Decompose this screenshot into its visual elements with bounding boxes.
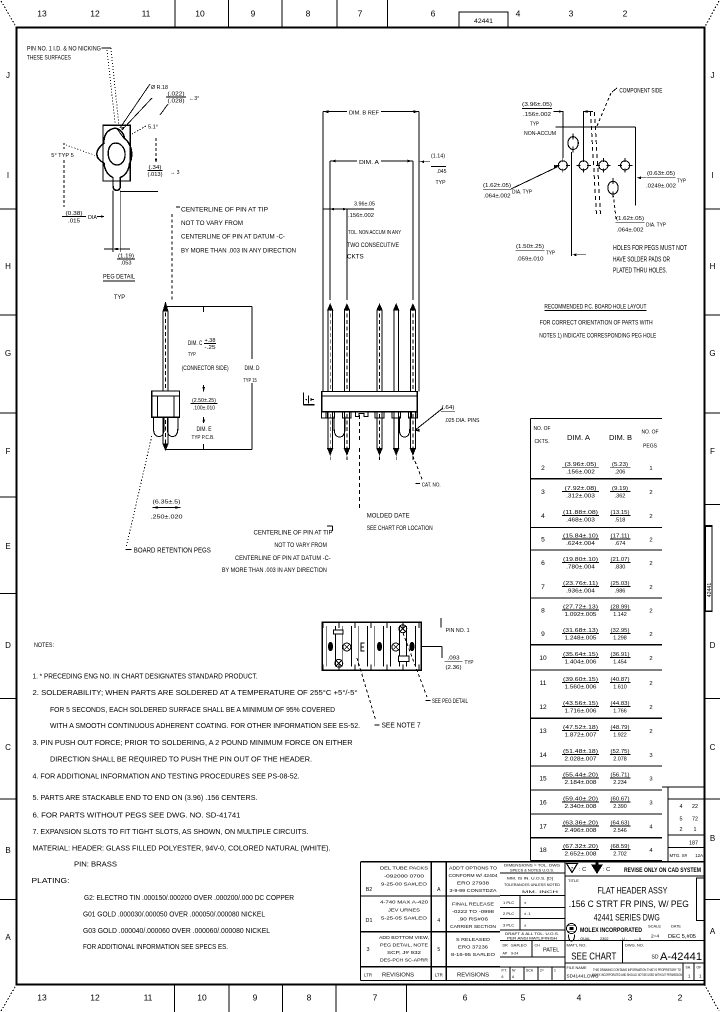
svg-text:2.078: 2.078 [613,757,627,763]
svg-text:SEE CHART: SEE CHART [571,952,616,963]
svg-text:4: 4 [541,513,545,520]
svg-text:2: 2 [678,993,683,1003]
svg-text:FOR CORRECT ORIENTATION OF PAR: FOR CORRECT ORIENTATION OF PARTS WITH [540,321,653,327]
svg-text:DIM. C: DIM. C [188,341,203,347]
svg-text:S RELEASED: S RELEASED [456,937,491,942]
svg-text:(.34): (.34) [149,165,162,171]
svg-text:(.64): (.64) [442,405,455,411]
svg-text:.059±.010: .059±.010 [517,256,544,262]
svg-text:-092000 0700: -092000 0700 [384,873,425,878]
svg-text:4: 4 [437,918,440,924]
scale and date cells [648,925,696,940]
front view pins upper [328,304,416,391]
svg-text:A-42441: A-42441 [660,951,702,963]
svg-text:MAT'L NO.: MAT'L NO. [567,944,587,948]
svg-text:6. FOR PARTS WITHOUT PEGS SEE: 6. FOR PARTS WITHOUT PEGS SEE DWG. NO. S… [33,811,241,820]
svg-text:3. PIN PUSH OUT FORCE; PRIOR T: 3. PIN PUSH OUT FORCE; PRIOR TO SOLDERIN… [33,738,353,747]
svg-text:SPECS & NOTES U.O.S.: SPECS & NOTES U.O.S. [510,869,554,873]
svg-text:OF: OF [697,966,702,970]
title block main frame [565,862,705,981]
svg-text:DIA: DIA [88,215,98,221]
peg detail dim 5.1 deg [132,125,158,135]
svg-text:: C: : C [579,867,586,873]
svg-text:5.1°: 5.1° [148,125,158,131]
svg-text:TYP: TYP [677,179,686,185]
svg-text:(1.50±.25): (1.50±.25) [516,244,544,250]
chart table frame [530,418,662,860]
svg-text:1.248±.005: 1.248±.005 [565,636,597,642]
chart row 13 ckts [539,725,652,739]
peg quantity mini table [662,787,704,862]
svg-text:(5.23): (5.23) [612,462,628,468]
single pin side view: pin lower end [163,417,168,449]
svg-text:BY MORE THAN .003 IN ANY DIREC: BY MORE THAN .003 IN ANY DIRECTION [222,568,327,574]
front view dim B REF [323,107,419,392]
svg-text:2 PLC: 2 PLC [503,911,514,916]
revise only on cad system bar [567,863,702,874]
svg-text:.015: .015 [68,218,80,224]
svg-text:.206: .206 [615,470,626,476]
svg-text:(17.11): (17.11) [611,533,630,539]
svg-text:2: 2 [649,585,652,591]
svg-text:.156±.002: .156±.002 [348,213,374,219]
svg-text:PIN NO. 1 I.D. & NO NICKING: PIN NO. 1 I.D. & NO NICKING [27,46,101,52]
svg-text:(40.87): (40.87) [611,677,630,683]
board retention pegs label with leader [126,436,212,554]
svg-text:(64.63): (64.63) [611,820,630,826]
dim E typ pcb label [192,427,215,441]
svg-text:NOT TO VARY FROM: NOT TO VARY FROM [274,543,327,549]
svg-text:.156 C STRT FR PINS, W/ PEG: .156 C STRT FR PINS, W/ PEG [569,899,689,909]
svg-text:(0.63±.05): (0.63±.05) [647,171,675,177]
svg-text:2.652±.008: 2.652±.008 [565,852,597,858]
svg-text:9: 9 [251,9,256,19]
svg-text:1.716±.006: 1.716±.006 [565,709,597,715]
svg-text:DIMENSIONS = TOL. DWG: DIMENSIONS = TOL. DWG [504,864,560,868]
chart row 14 ckts [539,749,652,763]
see note 7 label with dashed leader [357,658,421,730]
svg-text:42441: 42441 [474,18,493,25]
peg detail rectangle [103,125,130,181]
bottom ruler band [37,985,682,1012]
svg-text:-.25: -.25 [205,345,216,351]
svg-text:RECOMMENDED P.C. BOARD HOLE LA: RECOMMENDED P.C. BOARD HOLE LAYOUT [544,304,646,310]
svg-text:DR: DR [503,944,509,948]
svg-text:→ 3: → 3 [170,170,180,176]
svg-text:.053: .053 [121,261,132,267]
revision row D1 [366,899,496,929]
chart row 10 ckts [539,652,652,666]
svg-text:(.022): (.022) [168,91,185,97]
svg-text:11: 11 [144,993,153,1003]
svg-text:.156±.002: .156±.002 [523,112,551,118]
svg-text:DIM. B REF: DIM. B REF [349,111,379,117]
svg-text:DIM. E: DIM. E [197,427,212,433]
svg-text:C: C [5,743,11,752]
svg-text:←3°: ←3° [189,96,199,102]
svg-text:J: J [6,71,10,80]
svg-text:PEG DETAIL: PEG DETAIL [103,273,135,280]
svg-text:G2: ELECTRO TIN .000150/.00020: G2: ELECTRO TIN .000150/.000200 OVER .00… [84,893,294,902]
svg-text:.045: .045 [437,169,447,175]
svg-text:D: D [710,641,716,650]
svg-text:— A: — A [634,937,642,941]
svg-text:7: 7 [358,9,363,19]
svg-text:PATEL: PATEL [543,948,559,954]
svg-text:(35.64±.15): (35.64±.15) [563,652,598,658]
svg-text:2.184±.008: 2.184±.008 [565,780,597,786]
svg-text:8-16-95 SA#LEO: 8-16-95 SA#LEO [451,952,496,957]
svg-text:.674: .674 [615,541,626,547]
svg-text:(31.68±.13): (31.68±.13) [563,628,598,634]
svg-text:2: 2 [649,705,652,711]
revision row 3 [367,935,496,963]
svg-text:DIA. TYP: DIA. TYP [512,190,532,196]
svg-text:2: 2 [649,490,652,496]
svg-text:2: 2 [541,465,545,472]
revision footer strip [364,973,490,979]
svg-text:.624±.004: .624±.004 [566,541,595,547]
svg-text:MATERIAL: HEADER: GLASS FILLED: MATERIAL: HEADER: GLASS FILLED POLYESTER… [33,844,331,853]
svg-text:F: F [6,447,11,456]
svg-text:5: 5 [680,817,683,823]
svg-text:ERO 37236: ERO 37236 [458,944,489,949]
svg-text:CAT. NO.: CAT. NO. [422,482,441,488]
svg-text:TYP: TYP [546,251,555,257]
svg-text:(19.80±.10): (19.80±.10) [563,557,598,563]
svg-text:22: 22 [692,804,698,810]
peg detail dim .34 fraction [148,138,180,178]
svg-text:TYP 15: TYP 15 [243,378,256,384]
single pin side view: pin shaft [163,303,168,391]
svg-text:3 PLC: 3 PLC [503,923,514,928]
chart row 8 ckts [541,604,652,618]
svg-text:1.454: 1.454 [613,660,627,666]
svg-text:TOL. NON ACCUM IN ANY: TOL. NON ACCUM IN ANY [348,230,401,236]
svg-text:(27.72±.13): (27.72±.13) [563,604,598,610]
svg-text:CENTERLINE OF PIN AT DATUM -C-: CENTERLINE OF PIN AT DATUM -C- [235,556,331,562]
svg-text:(48.79): (48.79) [611,725,630,731]
svg-text:ADD'T OPTIONS TO: ADD'T OPTIONS TO [449,865,497,870]
svg-text:C: C [710,743,716,752]
pcb layout pin holes row [556,158,633,172]
peg detail dim R.18 leader [120,84,168,130]
svg-text:1.092±.005: 1.092±.005 [565,612,597,618]
svg-text:4. FOR ADDITIONAL INFORMATION: 4. FOR ADDITIONAL INFORMATION AND TESTIN… [33,772,300,781]
svg-text:2: 2 [649,681,652,687]
svg-text:6: 6 [541,560,545,567]
svg-text:1: 1 [694,827,697,833]
svg-text:DIA. TYP: DIA. TYP [646,223,666,229]
svg-text:ERO 27938: ERO 27938 [457,880,490,885]
dim 6.35/.250 peg length [151,500,183,521]
svg-text:+.38: +.38 [205,338,216,344]
svg-text:13: 13 [37,9,47,19]
chart row 2 ckts [541,462,652,476]
svg-text:B: B [5,846,10,855]
svg-text:6: 6 [463,993,468,1003]
svg-text:G01 GOLD .000030/.000050 OVER: G01 GOLD .000030/.000050 OVER .000050/.0… [83,910,265,919]
svg-text:(52.75): (52.75) [611,749,630,755]
svg-text:SD: SD [652,955,659,961]
bottom view key slots [334,630,409,662]
svg-text:FOR 5 SECONDS, EACH SOLDERED S: FOR 5 SECONDS, EACH SOLDERED SURFACE SHA… [50,705,335,714]
svg-text:6: 6 [502,975,504,979]
svg-text:SCA: SCA [526,969,534,973]
svg-text:SEE NOTE 7: SEE NOTE 7 [382,723,421,730]
svg-text:DIM. A: DIM. A [567,435,590,442]
svg-text:-0222 TO -0998: -0222 TO -0998 [452,909,495,914]
svg-text:PEGS: PEGS [643,444,657,450]
svg-text:(13.15): (13.15) [611,510,630,516]
svg-text:12A: 12A [695,853,703,858]
svg-text:SEE PEG DETAIL: SEE PEG DETAIL [432,699,468,705]
svg-text:2: 2 [649,514,652,520]
svg-text:(67.32±.20): (67.32±.20) [563,844,598,850]
front view dim 3.96/.156 pitch [323,202,401,300]
svg-text:10: 10 [195,9,205,19]
right ruler band letters [705,71,720,936]
svg-text:PLATED THRU HOLES.: PLATED THRU HOLES. [613,268,667,275]
svg-text:TYP: TYP [530,122,539,128]
right edge microfilm 42441 box [706,526,713,611]
svg-text:G: G [5,349,11,358]
chart row 9 ckts [541,628,652,642]
svg-text:DEC 5,#05: DEC 5,#05 [668,934,696,940]
svg-text:12: 12 [90,993,100,1003]
svg-text:.986: .986 [615,589,626,595]
svg-text:1.142: 1.142 [613,612,627,618]
svg-text:G: G [709,349,715,358]
svg-text:18: 18 [539,847,547,854]
peg detail typ 5 label [51,143,97,207]
svg-text:SCP, J# 932: SCP, J# 932 [387,950,422,955]
svg-text:13: 13 [539,728,547,735]
pcb dim hole dia left [483,165,559,200]
svg-text:(7.92±.08): (7.92±.08) [565,486,597,492]
svg-text:(44.83): (44.83) [611,701,630,707]
single pin view dim bracket [166,306,253,449]
svg-text:(6.35±.5): (6.35±.5) [153,500,181,506]
svg-text:SEE CHART FOR LOCATION: SEE CHART FOR LOCATION [367,526,433,532]
svg-text:H: H [5,262,11,271]
svg-text:FOR ADDITIONAL INFORMATION SEE: FOR ADDITIONAL INFORMATION SEE SPECS ES. [83,942,228,951]
svg-text:PLATING:: PLATING: [32,876,70,885]
svg-text:.025 DIA. PINS: .025 DIA. PINS [445,418,480,424]
svg-text:1: 1 [649,466,652,472]
svg-text:7: 7 [373,993,378,1003]
svg-text:2. SOLDERABILITY; WHEN PARTS A: 2. SOLDERABILITY; WHEN PARTS ARE SOLDERE… [33,688,358,697]
svg-text:CONFORM W/ 42404: CONFORM W/ 42404 [449,873,498,878]
svg-text:(1.14): (1.14) [431,154,445,160]
svg-text:2.546: 2.546 [613,828,627,834]
svg-text:1.872±.007: 1.872±.007 [565,733,597,739]
svg-text:CENTERLINE OF PIN AT DATUM -C-: CENTERLINE OF PIN AT DATUM -C- [181,235,285,241]
svg-text:MM. INCH: MM. INCH [522,890,559,894]
chart row 15 ckts [539,772,652,786]
front view datum target mark [304,393,315,405]
svg-text:4: 4 [680,804,683,810]
svg-text:.518: .518 [615,518,626,524]
svg-text:NOTES:: NOTES: [34,642,54,649]
svg-text:BOARD RETENTION PEGS: BOARD RETENTION PEGS [134,547,211,554]
pcb dim 0.63 typ right [637,171,686,189]
svg-text:.100±.010: .100±.010 [193,406,215,412]
pcb dim 1.50 left lower [516,152,587,262]
svg-text:(11.88±.08): (11.88±.08) [563,510,598,516]
svg-text:2.496±.008: 2.496±.008 [565,828,597,834]
svg-text:AP: AP [503,952,508,956]
svg-text:TYP P.C.B.: TYP P.C.B. [192,435,215,441]
svg-text:A: A [710,927,716,936]
svg-text:LTR: LTR [435,973,443,978]
bottom view pin contacts (filled) [328,642,415,652]
svg-text:.250±.020: .250±.020 [151,515,183,521]
svg-text:G03 GOLD .000040/.000060 OVER: G03 GOLD .000040/.000060 OVER .000060/.0… [83,926,270,935]
svg-text:4: 4 [516,9,521,19]
revision history block frame [361,862,501,981]
svg-text:. U .: . U . [620,937,627,941]
svg-text:(3.96±.05): (3.96±.05) [522,102,552,108]
title text [568,879,689,923]
svg-text:WITH A SMOOTH CONTINUOUS ADHER: WITH A SMOOTH CONTINUOUS ADHERENT COATIN… [50,721,360,730]
svg-text:COMPONENT SIDE: COMPONENT SIDE [619,88,662,95]
svg-text:DEL TUBE PACKS: DEL TUBE PACKS [380,865,428,870]
svg-text:PEG DETAIL, NOTE: PEG DETAIL, NOTE [380,942,428,947]
svg-text:4: 4 [577,993,582,1003]
svg-text:2.028±.007: 2.028±.007 [565,757,597,763]
single pin side view: board retention pegs [154,417,178,436]
svg-text:10: 10 [197,993,207,1003]
svg-text:(1.62±.05): (1.62±.05) [483,183,511,189]
svg-text:.156±.002: .156±.002 [566,470,595,476]
svg-text:CKTS.: CKTS. [535,439,550,445]
svg-text:9-24: 9-24 [511,952,518,956]
svg-text:2: 2 [649,632,652,638]
note: centerline of pin at tip (upper) [176,207,296,254]
svg-text:TWO CONSECUTIVE: TWO CONSECUTIVE [347,242,399,249]
svg-text:1.922: 1.922 [613,733,627,739]
svg-text:E: E [5,542,10,551]
svg-text:(CONNECTOR SIDE): (CONNECTOR SIDE) [182,366,229,372]
svg-text:3: 3 [649,753,652,759]
svg-text:9: 9 [541,631,545,638]
svg-text:(51.48±.18): (51.48±.18) [563,749,598,755]
material no cell - see chart [567,941,703,964]
svg-text:CENTERLINE OF PIN AT TIP: CENTERLINE OF PIN AT TIP [181,207,268,213]
svg-text:13: 13 [37,993,47,1003]
chart row 17 ckts [539,820,653,834]
svg-text:1.298: 1.298 [613,636,627,642]
chart row 6 ckts [541,557,652,571]
svg-text:(63.36±.20): (63.36±.20) [563,820,598,826]
svg-text:.064±.002: .064±.002 [484,194,511,200]
svg-text:H: H [710,262,716,271]
peg detail cross-section blob [97,128,132,190]
sheet size cell [696,878,704,921]
svg-text:5: 5 [521,993,526,1003]
peg detail dim .022/.028 [160,91,199,115]
svg-text:NON-ACCUM: NON-ACCUM [524,131,556,137]
svg-text:2.702: 2.702 [613,852,627,858]
svg-text:15: 15 [539,775,547,782]
svg-text:.0249±.002: .0249±.002 [646,183,676,189]
svg-text:42441 SERIES DWG: 42441 SERIES DWG [594,913,660,923]
chart row 4 ckts [541,510,652,524]
svg-text:D1: D1 [366,918,373,924]
svg-text:(60.67): (60.67) [611,796,630,802]
svg-text:: C: : C [603,867,610,873]
svg-text:7. EXPANSION SLOTS TO FIT TIGH: 7. EXPANSION SLOTS TO FIT TIGHT SLOTS, A… [33,827,309,836]
svg-text:10: 10 [539,655,547,662]
svg-text:1 PLC: 1 PLC [503,900,514,905]
svg-text:(43.56±.15): (43.56±.15) [563,701,598,707]
svg-text:1.560±.006: 1.560±.006 [565,685,597,691]
svg-text:(28.99): (28.99) [611,604,630,610]
svg-text:2: 2 [649,561,652,567]
dim D label [243,366,260,384]
pcb dim peg hole dia [614,196,667,233]
front view dim 1.14/.045 end tab [419,154,446,187]
leader from pin note to peg detail (dotted) [107,48,119,126]
single pin side view: housing block [152,391,180,417]
svg-text:TYP: TYP [114,294,125,301]
svg-text:MM. IS IN. U.O.S. [D]: MM. IS IN. U.O.S. [D] [507,877,553,881]
dashed leader from upper centerline note down [171,214,173,300]
svg-text:P.T.: P.T. [502,969,507,973]
peg detail dim 0.38 dia [62,211,105,224]
svg-text:DWG. NO.: DWG. NO. [625,944,644,948]
svg-text:.312±.003: .312±.003 [566,494,595,500]
molded date note with dashed leader [360,415,433,532]
svg-text:NOT TO VARY FROM: NOT TO VARY FROM [181,221,243,227]
notes block [32,642,361,951]
svg-text:CENTERLINE OF PIN AT TIP: CENTERLINE OF PIN AT TIP [254,531,333,537]
svg-text:BY MORE THAN .003 IN ANY DIREC: BY MORE THAN .003 IN ANY DIRECTION [181,248,296,254]
svg-text:8: 8 [541,607,545,614]
svg-text:CARRIER SECTION: CARRIER SECTION [450,924,496,929]
svg-text:(.013): (.013) [148,172,163,178]
svg-text:TOLERANCES UNLESS NOTED: TOLERANCES UNLESS NOTED [504,883,561,887]
svg-text:12: 12 [539,704,547,711]
dim C connector side [182,338,229,372]
front view expansion slot loops [334,417,410,437]
svg-text:7: 7 [541,584,545,591]
svg-text:187: 187 [689,841,698,847]
left ruler band letters [0,71,17,942]
svg-text:N/: N/ [512,969,515,973]
svg-text:9: 9 [253,993,258,1003]
chart row 7 ckts [541,581,652,595]
svg-text:(47.52±.18): (47.52±.18) [563,725,598,731]
svg-text:.362: .362 [615,494,626,500]
svg-text:2=4: 2=4 [651,934,659,940]
svg-text:3.96±.05: 3.96±.05 [354,202,375,208]
svg-text:14: 14 [539,752,547,759]
revision row B2 [366,865,498,893]
svg-text:SA#LEO: SA#LEO [511,943,527,948]
svg-text:PIN: BRASS: PIN: BRASS [74,860,117,869]
pcb dim 3.96 pitch typ non-accum [522,102,593,158]
svg-text:PIN NO. 1: PIN NO. 1 [446,628,470,634]
svg-text:2: 2 [649,656,652,662]
svg-text:3: 3 [541,489,545,496]
cat no label with dashed leader [413,456,441,488]
svg-text:LTR: LTR [364,973,372,978]
svg-text:HOLES FOR PEGS MUST NOT: HOLES FOR PEGS MUST NOT [613,245,688,252]
svg-text:REVISE ONLY ON CAD SYSTEM: REVISE ONLY ON CAD SYSTEM [624,867,701,874]
svg-text:(25.03): (25.03) [611,581,630,587]
